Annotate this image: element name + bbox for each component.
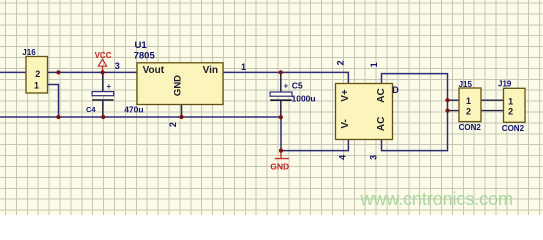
regulator U1 body [137, 63, 223, 105]
junction GND node [279, 149, 283, 153]
wire bridge pin1 pin3 loop to J15 [382, 74, 448, 151]
junction J15 pin2 [445, 109, 449, 113]
svg-text:2: 2 [336, 60, 346, 65]
svg-text:CON2: CON2 [459, 123, 482, 132]
svg-text:1: 1 [241, 62, 246, 72]
svg-text:2: 2 [35, 69, 40, 79]
svg-text:1: 1 [508, 96, 513, 106]
junction top rail at J16 [56, 70, 60, 74]
svg-text:2: 2 [508, 107, 513, 117]
svg-text:VCC: VCC [95, 51, 112, 60]
svg-text:4: 4 [337, 155, 347, 160]
svg-text:2: 2 [466, 107, 471, 117]
svg-text:J19: J19 [498, 80, 512, 89]
wire top rail net 3 [0, 72, 348, 84]
connector J16 body [26, 57, 48, 94]
svg-text:+: + [284, 82, 289, 91]
svg-text:V-: V- [340, 119, 351, 128]
wire J15 to J19 links [481, 100, 504, 110]
capacitor C5 plates [270, 92, 292, 96]
svg-text:7805: 7805 [134, 50, 156, 61]
junction C5 top rail [279, 70, 283, 74]
connector J15 body [459, 88, 481, 122]
svg-text:CON2: CON2 [502, 124, 525, 133]
svg-text:Vin: Vin [203, 65, 218, 76]
svg-text:AC: AC [376, 117, 387, 131]
svg-text:+: + [107, 82, 112, 91]
svg-text:3: 3 [115, 61, 120, 71]
svg-text:J16: J16 [22, 48, 36, 57]
junction VCC C4 top rail [101, 70, 105, 74]
connector J19 body [504, 88, 526, 122]
junction C5 bottom rail [279, 115, 283, 119]
svg-text:GND: GND [270, 162, 289, 172]
power GND symbol [275, 151, 289, 159]
wire bottom rail [0, 116, 281, 118]
svg-text:1: 1 [34, 81, 39, 91]
svg-text:1: 1 [369, 62, 379, 67]
svg-text:470u: 470u [124, 104, 143, 114]
wire GND vertical [280, 117, 282, 151]
junction U1 pin2 bottom rail [179, 115, 183, 119]
svg-text:3: 3 [369, 155, 379, 160]
wire GND to bridge pin4 [281, 139, 348, 151]
watermark www.cntronics.com [361, 190, 513, 208]
junction C4 bottom rail [101, 115, 105, 119]
svg-text:1: 1 [466, 96, 471, 106]
wire J16 pin1 to bottom rail [48, 85, 59, 118]
svg-text:GND: GND [173, 75, 184, 96]
wire U1 pin2 stub [181, 105, 183, 118]
wire C5 leads [280, 72, 282, 117]
capacitor C4 plates [92, 92, 114, 96]
svg-text:2: 2 [168, 122, 178, 127]
svg-text:C5: C5 [292, 81, 303, 91]
wire J15 pin taps [448, 100, 460, 110]
svg-text:1000u: 1000u [292, 94, 316, 104]
wire C4 leads [102, 72, 104, 117]
svg-text:D: D [392, 85, 399, 95]
svg-text:AC: AC [376, 88, 387, 102]
junction J16 pin1 bottom rail [56, 115, 60, 119]
power VCC symbol [98, 59, 106, 72]
bridge rectifier D body [336, 84, 393, 140]
svg-text:Vout: Vout [143, 65, 165, 76]
svg-text:C4: C4 [86, 105, 96, 114]
svg-text:V+: V+ [340, 89, 351, 102]
junction J15 pin1 [445, 98, 449, 102]
svg-text:J15: J15 [459, 80, 473, 89]
